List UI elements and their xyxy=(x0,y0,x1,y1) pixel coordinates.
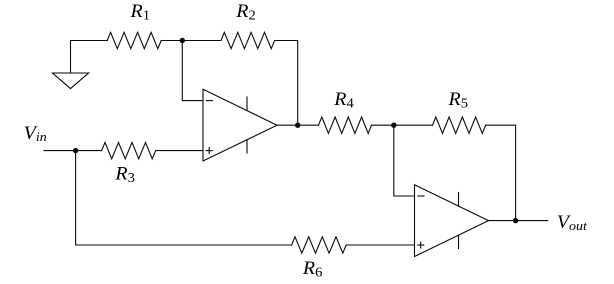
U1 non-inverting pin mark xyxy=(206,148,212,154)
node C junction xyxy=(391,123,396,128)
op-amp U2 xyxy=(415,185,489,257)
wire: U2 output to Vout xyxy=(489,220,548,222)
wire: ground stub to R1 xyxy=(71,41,108,74)
svg-text:R2: R2 xyxy=(235,2,256,23)
U1 inverting pin mark xyxy=(207,100,213,102)
U2 positive supply tick xyxy=(458,193,460,207)
wire: U1 output to node B xyxy=(277,124,319,126)
U1 negative supply tick xyxy=(246,140,248,154)
svg-text:R1: R1 xyxy=(129,2,150,23)
resistor R2 xyxy=(221,32,275,48)
svg-text:R3: R3 xyxy=(114,165,135,186)
U1 positive supply tick xyxy=(246,97,248,111)
wire: R1 to node A xyxy=(161,40,182,42)
svg-text:R5: R5 xyxy=(447,90,468,111)
wire: R5 down to output node of U2 xyxy=(486,125,516,220)
wire: Vin lead to R3 xyxy=(44,150,102,152)
wire: node A to R2 xyxy=(182,40,221,42)
resistor R6 xyxy=(292,237,347,253)
svg-text:R6: R6 xyxy=(302,259,323,280)
node Vout junction xyxy=(513,218,518,223)
wire: Vin junction down to R6 xyxy=(76,151,292,245)
wire: node A down to inverting input of U1 xyxy=(182,41,203,101)
wire: R4 to node C xyxy=(372,124,433,126)
node A junction xyxy=(180,38,185,43)
node B junction xyxy=(295,123,300,128)
svg-text:Vout: Vout xyxy=(557,213,587,233)
wire: R2 to output node of U1 xyxy=(275,41,298,126)
svg-text:R4: R4 xyxy=(333,90,354,111)
wire: R6 to non-inverting input of U2 xyxy=(346,244,414,246)
svg-text:Vin: Vin xyxy=(24,124,47,144)
ground xyxy=(53,73,89,89)
U2 inverting pin mark xyxy=(418,195,424,197)
resistor R4 xyxy=(319,117,372,133)
node Vin junction xyxy=(73,148,78,153)
U2 negative supply tick xyxy=(458,235,460,249)
op-amp U1 xyxy=(203,89,277,161)
wire: R3 to non-inverting input of U1 xyxy=(156,150,203,152)
resistor R3 xyxy=(102,142,156,158)
U2 non-inverting pin mark xyxy=(418,242,424,248)
resistor R5 xyxy=(433,117,486,133)
resistor R1 xyxy=(107,32,161,48)
wire: node C down to inverting input of U2 xyxy=(394,125,415,196)
